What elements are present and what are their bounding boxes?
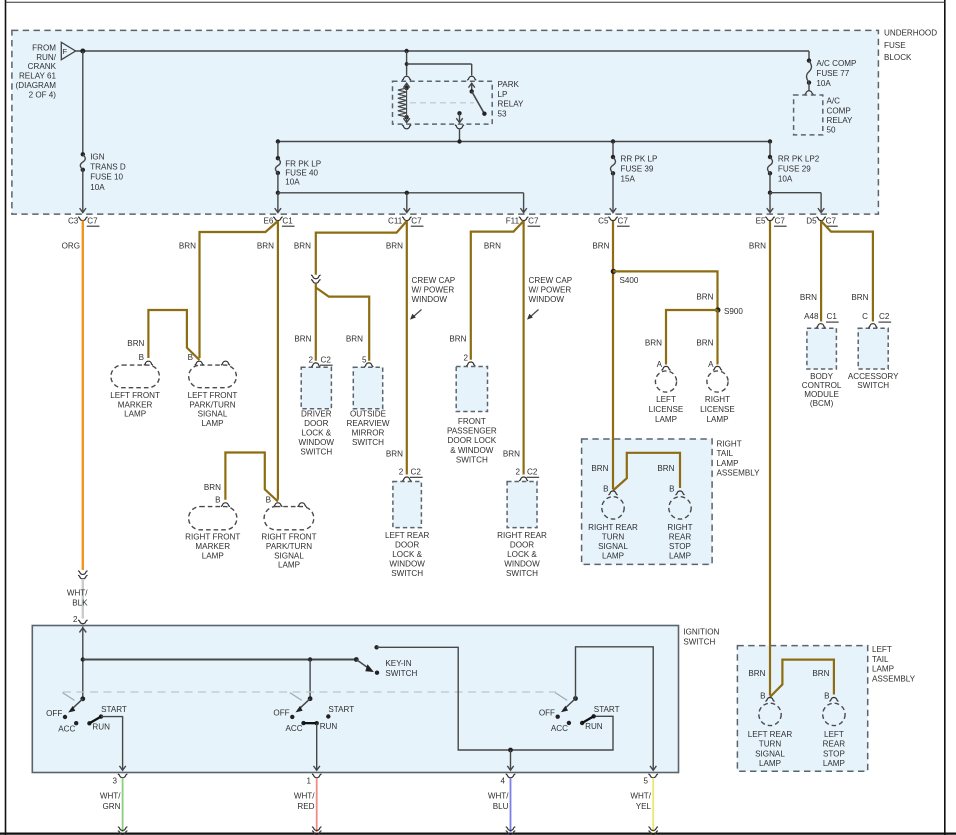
svg-text:B: B bbox=[188, 353, 193, 362]
svg-text:RUN: RUN bbox=[320, 722, 338, 731]
svg-text:RELAY 61: RELAY 61 bbox=[19, 72, 57, 81]
wire left tail internal bbox=[770, 660, 834, 697]
node pin 3 bbox=[118, 774, 128, 778]
svg-text:S900: S900 bbox=[724, 307, 743, 316]
svg-text:LEFT: LEFT bbox=[656, 395, 676, 404]
svg-text:REAR: REAR bbox=[823, 740, 846, 749]
wire F11 branch bbox=[471, 221, 524, 360]
inline connector bbox=[311, 275, 321, 279]
wire WHT/RED bbox=[316, 778, 318, 833]
svg-text:BRN: BRN bbox=[657, 464, 674, 473]
svg-text:BRN: BRN bbox=[749, 241, 766, 250]
relay linkage bbox=[410, 102, 474, 104]
svg-text:FUSE 77: FUSE 77 bbox=[816, 69, 849, 78]
svg-text:RR PK LP2: RR PK LP2 bbox=[778, 155, 820, 164]
svg-text:WINDOW: WINDOW bbox=[389, 560, 425, 569]
svg-text:2 OF 4): 2 OF 4) bbox=[29, 90, 57, 99]
svg-text:BRN: BRN bbox=[503, 450, 520, 459]
svg-text:C1: C1 bbox=[282, 216, 293, 225]
svg-text:5: 5 bbox=[362, 355, 367, 364]
svg-text:RIGHT FRONT: RIGHT FRONT bbox=[185, 533, 240, 542]
ignition switch box bbox=[32, 626, 678, 773]
svg-text:BLOCK: BLOCK bbox=[884, 53, 912, 62]
svg-text:10A: 10A bbox=[90, 183, 105, 192]
svg-text:DRIVER: DRIVER bbox=[301, 410, 332, 419]
relay coil bbox=[403, 83, 409, 87]
svg-text:RELAY: RELAY bbox=[498, 100, 525, 109]
wire right tail internal bbox=[613, 453, 680, 491]
svg-text:LAMP: LAMP bbox=[202, 551, 224, 560]
svg-text:50: 50 bbox=[827, 126, 837, 135]
svg-text:OFF: OFF bbox=[273, 709, 289, 718]
svg-text:PARK: PARK bbox=[498, 80, 520, 89]
svg-text:F: F bbox=[63, 47, 68, 56]
svg-text:OFF: OFF bbox=[46, 709, 62, 718]
svg-text:LICENSE: LICENSE bbox=[700, 405, 735, 414]
svg-text:B: B bbox=[824, 691, 829, 700]
svg-text:FROM: FROM bbox=[32, 44, 56, 53]
wire WHT/GRN bbox=[122, 778, 124, 833]
svg-text:53: 53 bbox=[498, 109, 508, 118]
svg-text:UNDERHOOD: UNDERHOOD bbox=[884, 29, 937, 38]
svg-text:WHT/: WHT/ bbox=[67, 589, 88, 598]
svg-text:LEFT REAR: LEFT REAR bbox=[385, 531, 430, 540]
svg-text:SIGNAL: SIGNAL bbox=[274, 551, 304, 560]
wire pole1 to pin 3 bbox=[101, 717, 123, 770]
svg-text:PARK/TURN: PARK/TURN bbox=[266, 542, 312, 551]
node C11/C7 bbox=[402, 217, 412, 221]
wire E5 inside assembly bbox=[769, 646, 771, 696]
svg-text:WHT/: WHT/ bbox=[630, 792, 651, 801]
wire pole2 to pin 1 bbox=[316, 723, 318, 769]
svg-text:WHT/: WHT/ bbox=[488, 792, 509, 801]
switch: DRIVER DOOR LOCK & WINDOW SWITCH bbox=[311, 363, 320, 367]
wire E5 branch bbox=[769, 221, 771, 696]
inline connector bbox=[78, 571, 88, 575]
svg-text:BRN: BRN bbox=[645, 339, 662, 348]
svg-text:STOP: STOP bbox=[669, 542, 691, 551]
svg-text:(BCM): (BCM) bbox=[810, 399, 834, 408]
svg-text:ORG: ORG bbox=[62, 241, 80, 250]
svg-text:REAR: REAR bbox=[669, 532, 692, 541]
svg-text:SWITCH: SWITCH bbox=[456, 456, 488, 465]
svg-text:SWITCH: SWITCH bbox=[857, 381, 889, 390]
lamp: LEFT FRONT MARKER LAMP bbox=[144, 361, 153, 365]
fuse: RR PK LP FUSE 39 15A bbox=[612, 142, 614, 158]
svg-text:A/C COMP: A/C COMP bbox=[816, 59, 856, 68]
svg-text:SIGNAL: SIGNAL bbox=[755, 749, 785, 758]
svg-text:MIRROR: MIRROR bbox=[352, 429, 385, 438]
key-in switch bbox=[354, 657, 359, 662]
svg-text:TAIL: TAIL bbox=[872, 655, 889, 664]
svg-text:F11: F11 bbox=[506, 216, 520, 225]
svg-text:SWITCH: SWITCH bbox=[683, 637, 715, 646]
node C5/C7 bbox=[608, 217, 618, 221]
node pin 5 bbox=[648, 774, 658, 778]
svg-text:2: 2 bbox=[463, 353, 468, 362]
node E5/C7 bbox=[765, 217, 775, 221]
svg-text:ACC: ACC bbox=[551, 724, 568, 733]
svg-text:RIGHT: RIGHT bbox=[705, 395, 730, 404]
svg-text:RIGHT REAR: RIGHT REAR bbox=[497, 531, 547, 540]
svg-text:SWITCH: SWITCH bbox=[391, 569, 423, 578]
svg-text:2: 2 bbox=[308, 355, 313, 364]
node pin 4 bbox=[506, 774, 516, 778]
node F11/C7 bbox=[519, 217, 529, 221]
svg-text:LOCK &: LOCK & bbox=[301, 429, 331, 438]
svg-text:LEFT FRONT: LEFT FRONT bbox=[110, 391, 160, 400]
svg-text:OUTSIDE: OUTSIDE bbox=[350, 410, 387, 419]
svg-text:S400: S400 bbox=[620, 276, 639, 285]
svg-text:B: B bbox=[215, 495, 220, 504]
svg-text:10A: 10A bbox=[285, 178, 300, 187]
svg-text:RIGHT FRONT: RIGHT FRONT bbox=[261, 533, 316, 542]
svg-text:LAMP: LAMP bbox=[201, 419, 223, 428]
wire key-in to start bus bbox=[377, 647, 613, 750]
svg-text:A48: A48 bbox=[804, 312, 819, 321]
svg-text:BRN: BRN bbox=[127, 339, 144, 348]
svg-text:DOOR: DOOR bbox=[510, 541, 534, 550]
svg-text:RED: RED bbox=[297, 802, 314, 811]
svg-text:WINDOW: WINDOW bbox=[299, 438, 335, 447]
wire C11 branch bbox=[316, 221, 407, 275]
svg-text:KEY-IN: KEY-IN bbox=[385, 659, 411, 668]
lamp: RIGHT REAR TURN SIGNAL LAMP bbox=[608, 491, 617, 495]
lamp: LEFT REAR STOP LAMP bbox=[829, 697, 838, 701]
svg-text:5: 5 bbox=[643, 776, 648, 785]
wire WHT/BLK bbox=[82, 579, 84, 619]
svg-text:LEFT REAR: LEFT REAR bbox=[748, 730, 793, 739]
svg-text:BRN: BRN bbox=[386, 450, 403, 459]
svg-text:YEL: YEL bbox=[636, 802, 652, 811]
svg-text:IGN: IGN bbox=[90, 153, 105, 162]
svg-text:C1: C1 bbox=[827, 312, 838, 321]
svg-text:ACC: ACC bbox=[58, 724, 75, 733]
wire bus2 bbox=[278, 141, 770, 143]
lamp: LEFT LICENSE LAMP bbox=[661, 366, 670, 370]
svg-text:BRN: BRN bbox=[179, 241, 196, 250]
svg-text:RR PK LP: RR PK LP bbox=[621, 155, 658, 164]
svg-text:RIGHT: RIGHT bbox=[667, 523, 692, 532]
svg-text:E6: E6 bbox=[263, 216, 273, 225]
svg-text:LAMP: LAMP bbox=[706, 415, 728, 424]
svg-text:PARK/TURN: PARK/TURN bbox=[189, 400, 235, 409]
svg-text:W/ POWER: W/ POWER bbox=[412, 286, 455, 295]
wire pole3 riser to pin 5 bbox=[576, 647, 654, 770]
svg-text:DOOR: DOOR bbox=[304, 419, 328, 428]
module: BODY CONTROL MODULE (BCM) bbox=[816, 324, 825, 328]
svg-text:W/ POWER: W/ POWER bbox=[529, 286, 572, 295]
svg-text:TURN: TURN bbox=[759, 740, 782, 749]
svg-text:BRN: BRN bbox=[696, 293, 713, 302]
node S900 bbox=[715, 307, 720, 312]
fuse: FR PK LP FUSE 40 10A bbox=[277, 142, 279, 159]
ignition linkage bbox=[63, 691, 556, 693]
svg-text:TURN: TURN bbox=[602, 532, 625, 541]
svg-text:BRN: BRN bbox=[696, 339, 713, 348]
wire pin 4 bbox=[510, 750, 512, 770]
svg-text:DOOR: DOOR bbox=[395, 541, 419, 550]
svg-text:3: 3 bbox=[112, 776, 117, 785]
svg-text:BRN: BRN bbox=[812, 669, 829, 678]
svg-text:DOOR LOCK: DOOR LOCK bbox=[448, 436, 497, 445]
node E6/C1 bbox=[273, 217, 283, 221]
svg-text:C7: C7 bbox=[826, 216, 837, 225]
fuse: A/C COMP FUSE 77 10A bbox=[808, 51, 810, 61]
svg-text:C5: C5 bbox=[598, 216, 609, 225]
svg-text:START: START bbox=[328, 705, 354, 714]
lamp: LEFT FRONT PARK/TURN SIGNAL LAMP bbox=[195, 361, 204, 365]
wire to driver door switch bbox=[315, 283, 317, 360]
svg-text:LAMP: LAMP bbox=[602, 551, 624, 560]
ignition switch pole 2 bbox=[308, 696, 313, 701]
svg-text:GRN: GRN bbox=[103, 802, 121, 811]
svg-text:BRN: BRN bbox=[294, 241, 311, 250]
svg-text:2: 2 bbox=[399, 467, 404, 476]
svg-text:C2: C2 bbox=[321, 355, 332, 364]
wire to right front lamps bbox=[225, 453, 278, 502]
svg-text:RIGHT REAR: RIGHT REAR bbox=[588, 523, 638, 532]
fuse: IGN TRANS D FUSE 10 10A bbox=[82, 51, 84, 154]
svg-text:START: START bbox=[594, 705, 620, 714]
svg-text:A: A bbox=[708, 360, 714, 369]
lamp: RIGHT FRONT MARKER LAMP bbox=[221, 503, 230, 507]
svg-text:BRN: BRN bbox=[346, 335, 363, 344]
svg-text:C7: C7 bbox=[618, 216, 629, 225]
relay switch bbox=[469, 83, 475, 87]
svg-text:MARKER: MARKER bbox=[195, 542, 230, 551]
svg-text:PASSENGER: PASSENGER bbox=[447, 427, 497, 436]
svg-text:RELAY: RELAY bbox=[827, 116, 854, 125]
ignition switch pole 1 bbox=[80, 696, 85, 701]
svg-text:10A: 10A bbox=[778, 175, 793, 184]
fuse: RR PK LP2 FUSE 29 10A bbox=[769, 142, 771, 158]
left tail lamp assembly bbox=[737, 646, 867, 772]
svg-text:B: B bbox=[603, 485, 608, 494]
lamp: LEFT REAR TURN SIGNAL LAMP bbox=[765, 697, 774, 701]
svg-text:2: 2 bbox=[515, 467, 520, 476]
wire WHT/YEL bbox=[652, 778, 654, 833]
svg-text:WHT/: WHT/ bbox=[294, 792, 315, 801]
svg-text:B: B bbox=[266, 495, 271, 504]
svg-text:RUN: RUN bbox=[585, 722, 603, 731]
wire bbox=[5, 0, 7, 835]
svg-text:BRN: BRN bbox=[257, 241, 274, 250]
switch: FRONT PASSENGER DOOR LOCK & WINDOW SWITCH bbox=[466, 362, 475, 366]
svg-text:E5: E5 bbox=[756, 216, 766, 225]
svg-text:C11: C11 bbox=[388, 216, 403, 225]
wire WHT/BLU bbox=[510, 778, 512, 833]
svg-text:LAMP: LAMP bbox=[278, 561, 300, 570]
wire D5 branch bbox=[820, 221, 822, 322]
svg-text:BRN: BRN bbox=[386, 241, 403, 250]
svg-text:SWITCH: SWITCH bbox=[506, 569, 538, 578]
wire E6 branch bbox=[200, 221, 278, 358]
svg-text:WHT/: WHT/ bbox=[100, 792, 121, 801]
svg-text:C7: C7 bbox=[528, 216, 539, 225]
node pin 1 bbox=[312, 774, 322, 778]
svg-text:RUN/: RUN/ bbox=[36, 53, 57, 62]
svg-text:BRN: BRN bbox=[592, 241, 609, 250]
svg-text:FUSE 10: FUSE 10 bbox=[90, 173, 123, 182]
wire to D5 bbox=[770, 192, 821, 194]
svg-text:10A: 10A bbox=[816, 79, 831, 88]
svg-text:B: B bbox=[669, 485, 674, 494]
svg-text:4: 4 bbox=[500, 776, 505, 785]
svg-text:C2: C2 bbox=[411, 467, 422, 476]
lamp: RIGHT REAR STOP LAMP bbox=[675, 491, 684, 495]
wire ignition bus bbox=[83, 659, 357, 661]
wire bus1 bbox=[76, 50, 809, 52]
node F: from run/crank relay 61 bbox=[61, 42, 75, 59]
svg-text:C3: C3 bbox=[68, 216, 79, 225]
svg-text:SIGNAL: SIGNAL bbox=[598, 542, 628, 551]
svg-text:BRN: BRN bbox=[591, 464, 608, 473]
wire C5 inside assembly bbox=[612, 439, 614, 489]
svg-text:LOCK &: LOCK & bbox=[507, 550, 537, 559]
svg-text:BRN: BRN bbox=[851, 293, 868, 302]
wire ORG bbox=[82, 221, 84, 571]
svg-text:RUN: RUN bbox=[92, 722, 110, 731]
wire subbus bbox=[276, 191, 280, 195]
svg-text:ASSEMBLY: ASSEMBLY bbox=[872, 675, 916, 684]
svg-text:C7: C7 bbox=[87, 216, 98, 225]
wire to S900 bbox=[613, 271, 718, 310]
svg-text:STOP: STOP bbox=[823, 749, 845, 758]
svg-text:CONTROL: CONTROL bbox=[802, 381, 842, 390]
svg-text:FUSE: FUSE bbox=[884, 41, 906, 50]
svg-text:FUSE 40: FUSE 40 bbox=[285, 169, 318, 178]
svg-text:A/C: A/C bbox=[827, 97, 841, 106]
right tail lamp assembly bbox=[582, 439, 713, 564]
node S400 bbox=[611, 269, 616, 274]
node C3/C7 bbox=[78, 217, 88, 221]
svg-text:TAIL: TAIL bbox=[717, 449, 734, 458]
relay: A/C COMP RELAY 50 bbox=[794, 95, 823, 135]
wire pin2 internal bbox=[79, 628, 86, 633]
svg-text:CRANK: CRANK bbox=[28, 62, 57, 71]
svg-text:BRN: BRN bbox=[748, 669, 765, 678]
lamp: RIGHT FRONT PARK/TURN SIGNAL LAMP bbox=[273, 503, 282, 507]
svg-text:ACC: ACC bbox=[286, 724, 303, 733]
svg-text:2: 2 bbox=[73, 615, 78, 624]
svg-text:LAMP: LAMP bbox=[823, 759, 845, 768]
svg-text:CREW CAP: CREW CAP bbox=[412, 276, 456, 285]
svg-text:LAMP: LAMP bbox=[872, 665, 894, 674]
svg-text:CREW CAP: CREW CAP bbox=[529, 276, 573, 285]
svg-text:SWITCH: SWITCH bbox=[385, 669, 417, 678]
svg-text:WINDOW: WINDOW bbox=[504, 560, 540, 569]
svg-text:SIGNAL: SIGNAL bbox=[198, 410, 228, 419]
svg-text:MODULE: MODULE bbox=[804, 390, 839, 399]
svg-text:(DIAGRAM: (DIAGRAM bbox=[16, 81, 57, 90]
svg-text:FUSE 39: FUSE 39 bbox=[621, 165, 654, 174]
svg-text:REARVIEW: REARVIEW bbox=[346, 419, 389, 428]
svg-text:B: B bbox=[760, 691, 765, 700]
svg-text:BLK: BLK bbox=[72, 598, 88, 607]
svg-text:BODY: BODY bbox=[810, 372, 834, 381]
svg-text:FRONT: FRONT bbox=[458, 417, 486, 426]
svg-text:SWITCH: SWITCH bbox=[352, 438, 384, 447]
svg-text:IGNITION: IGNITION bbox=[683, 628, 719, 637]
switch: OUTSIDE REARVIEW MIRROR SWITCH bbox=[364, 363, 373, 367]
wire relay feed bbox=[406, 51, 408, 76]
svg-text:LAMP: LAMP bbox=[124, 410, 146, 419]
svg-text:LP: LP bbox=[498, 90, 508, 99]
svg-text:LAMP: LAMP bbox=[669, 551, 691, 560]
svg-text:LAMP: LAMP bbox=[655, 415, 677, 424]
wire C5 branch bbox=[612, 221, 614, 489]
svg-text:FUSE 29: FUSE 29 bbox=[778, 165, 811, 174]
svg-text:LEFT: LEFT bbox=[824, 730, 844, 739]
lamp: RIGHT LICENSE LAMP bbox=[713, 366, 722, 370]
svg-text:ASSEMBLY: ASSEMBLY bbox=[717, 469, 761, 478]
svg-text:OFF: OFF bbox=[539, 709, 555, 718]
svg-text:LICENSE: LICENSE bbox=[649, 405, 684, 414]
svg-text:BRN: BRN bbox=[294, 335, 311, 344]
svg-text:TRANS D: TRANS D bbox=[90, 163, 126, 172]
svg-text:C7: C7 bbox=[411, 216, 422, 225]
svg-text:C2: C2 bbox=[879, 312, 890, 321]
relay: PARK LP RELAY 53 bbox=[393, 81, 493, 124]
svg-text:C7: C7 bbox=[775, 216, 786, 225]
svg-text:B: B bbox=[139, 353, 144, 362]
svg-text:1: 1 bbox=[306, 776, 311, 785]
underhood fuse block bbox=[12, 30, 879, 214]
svg-text:START: START bbox=[101, 705, 127, 714]
svg-text:LEFT FRONT: LEFT FRONT bbox=[188, 391, 238, 400]
svg-text:RIGHT: RIGHT bbox=[717, 440, 742, 449]
svg-text:MARKER: MARKER bbox=[118, 400, 153, 409]
svg-text:WINDOW: WINDOW bbox=[529, 295, 565, 304]
svg-text:WINDOW: WINDOW bbox=[412, 295, 448, 304]
svg-text:BLU: BLU bbox=[493, 802, 509, 811]
svg-text:BRN: BRN bbox=[800, 293, 817, 302]
svg-text:D5: D5 bbox=[806, 216, 817, 225]
wire to license lamps bbox=[666, 310, 718, 365]
node D5/C7 bbox=[816, 217, 826, 221]
svg-text:LOCK &: LOCK & bbox=[392, 550, 422, 559]
svg-text:LAMP: LAMP bbox=[759, 759, 781, 768]
svg-text:COMP: COMP bbox=[827, 106, 851, 115]
svg-text:LEFT: LEFT bbox=[872, 645, 892, 654]
svg-text:ACCESSORY: ACCESSORY bbox=[848, 372, 899, 381]
svg-text:A: A bbox=[657, 360, 663, 369]
svg-text:15A: 15A bbox=[621, 175, 636, 184]
switch: ACCESSORY SWITCH bbox=[868, 324, 877, 328]
svg-text:& WINDOW: & WINDOW bbox=[450, 446, 494, 455]
svg-text:C2: C2 bbox=[527, 467, 538, 476]
svg-text:BRN: BRN bbox=[484, 241, 501, 250]
wire to mirror switch bbox=[316, 288, 369, 361]
svg-text:FR PK LP: FR PK LP bbox=[285, 159, 321, 168]
wire to left front marker bbox=[148, 310, 199, 360]
svg-text:C: C bbox=[862, 312, 868, 321]
svg-text:LAMP: LAMP bbox=[717, 459, 739, 468]
ignition switch pole 3 bbox=[573, 696, 578, 701]
svg-text:SWITCH: SWITCH bbox=[300, 448, 332, 457]
svg-text:BRN: BRN bbox=[204, 483, 221, 492]
svg-text:BRN: BRN bbox=[449, 335, 466, 344]
